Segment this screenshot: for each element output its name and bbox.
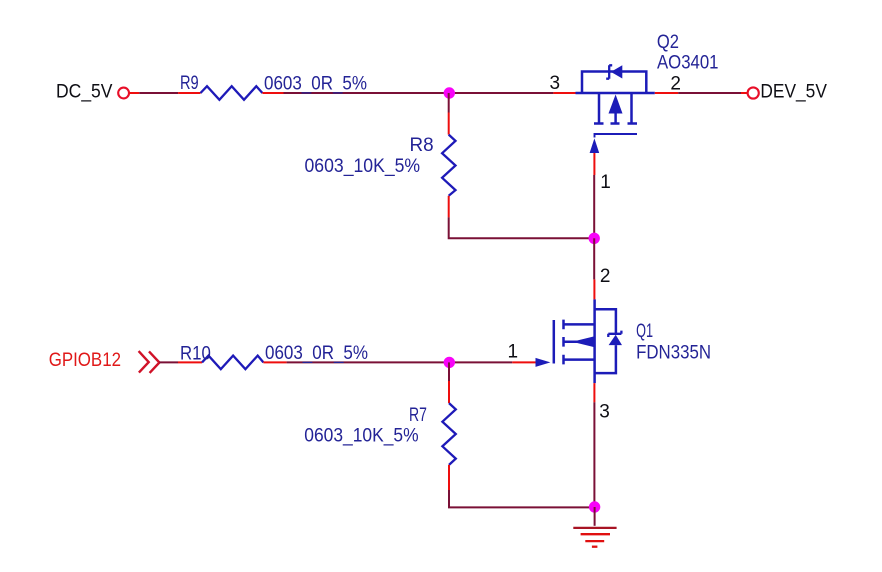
- svg-text:Q1: Q1: [636, 321, 653, 342]
- svg-text:GPIOB12: GPIOB12: [49, 350, 121, 371]
- wire Q2 pin 2 red: [655, 92, 678, 94]
- wire Q1 source to ground junction: [593, 402, 595, 507]
- pin 1 label Q1: [508, 341, 519, 362]
- wire port DEV_5V pin: [741, 92, 747, 94]
- pin 3 label Q2: [550, 73, 561, 94]
- label Q1 designator: [636, 321, 653, 342]
- junction node R10/R7: [444, 357, 455, 368]
- label R10 value 0603_0R_5%: [265, 343, 368, 364]
- svg-text:R7: R7: [409, 405, 427, 426]
- svg-text:FDN335N: FDN335N: [636, 342, 711, 363]
- label R7 value 0603_10K_5%: [304, 425, 418, 446]
- node DEV_5V label: [760, 82, 827, 103]
- pin 2 label Q2: [670, 73, 681, 94]
- wire R8 bottom to mid junction: [449, 217, 595, 238]
- wire R10 to Q1 gate: [287, 361, 513, 363]
- wire DC_5V to R9: [139, 92, 178, 94]
- wire R9 to Q2 pin 3: [284, 92, 554, 94]
- svg-text:3: 3: [599, 401, 610, 422]
- junction node R9/R8: [444, 87, 455, 98]
- label R9 designator: [180, 73, 199, 94]
- port DEV_5V circle: [748, 87, 759, 98]
- svg-text:2: 2: [600, 266, 611, 287]
- resistor R9: [178, 86, 283, 100]
- svg-text:R10: R10: [180, 343, 211, 364]
- transistor Q1: [536, 299, 623, 383]
- svg-text:0603_0R_5%: 0603_0R_5%: [264, 73, 367, 94]
- label Q2 designator: [657, 32, 679, 53]
- wire port DC_5V pin: [129, 92, 139, 94]
- transistor Q2: [576, 65, 655, 153]
- wire Q2 gate pin red: [593, 153, 595, 175]
- svg-text:0603_0R_5%: 0603_0R_5%: [265, 343, 368, 364]
- pin 3 label Q1: [599, 401, 610, 422]
- svg-text:DEV_5V: DEV_5V: [760, 82, 827, 103]
- pin 1 label Q2: [600, 172, 611, 193]
- port DC_5V circle: [118, 88, 129, 99]
- node DC_5V label: [56, 81, 113, 102]
- port GPIOB12 chevron: [139, 351, 160, 373]
- wire R7 bottom to ground junction: [449, 490, 595, 507]
- svg-text:0603_10K_5%: 0603_10K_5%: [305, 156, 421, 177]
- wire Q2 to DEV_5V: [678, 92, 741, 94]
- label R10 designator: [180, 343, 211, 364]
- svg-text:Q2: Q2: [657, 32, 679, 53]
- wire Q1 drain pin red: [593, 279, 595, 299]
- resistor R8: [442, 113, 455, 218]
- wire Q2 pin 3 red: [553, 92, 575, 94]
- label R7 designator: [409, 405, 427, 426]
- svg-text:R8: R8: [410, 135, 434, 156]
- node GPIOB12 label: [49, 350, 121, 371]
- svg-text:AO3401: AO3401: [657, 53, 719, 74]
- wire mid junction up to Q2 gate: [593, 175, 595, 238]
- label Q1 value FDN335N: [636, 342, 711, 363]
- label R8 designator: [410, 135, 434, 156]
- wire Q1 gate pin red: [512, 361, 535, 363]
- svg-text:1: 1: [508, 341, 519, 362]
- svg-text:3: 3: [550, 73, 561, 94]
- resistor R7: [442, 381, 455, 490]
- svg-text:0603_10K_5%: 0603_10K_5%: [304, 425, 418, 446]
- junction node gate/R8: [589, 233, 600, 244]
- svg-text:R9: R9: [180, 73, 199, 94]
- svg-text:2: 2: [670, 73, 681, 94]
- svg-text:1: 1: [600, 172, 611, 193]
- pin 2 label Q1: [600, 266, 611, 287]
- junction node ground: [589, 501, 600, 512]
- wire mid junction down to Q1 drain: [593, 238, 595, 279]
- ground: [573, 507, 616, 547]
- wire Q1 source pin red: [593, 383, 595, 402]
- label R9 value 0603_0R_5%: [264, 73, 367, 94]
- svg-text:DC_5V: DC_5V: [56, 81, 113, 102]
- resistor R10: [178, 356, 287, 370]
- wire junction to R8: [448, 93, 450, 113]
- label R8 value 0603_10K_5%: [305, 156, 421, 177]
- wire GPIOB12 to R10: [159, 361, 178, 363]
- wire junction to R7: [448, 362, 450, 381]
- label Q2 value AO3401: [657, 53, 719, 74]
